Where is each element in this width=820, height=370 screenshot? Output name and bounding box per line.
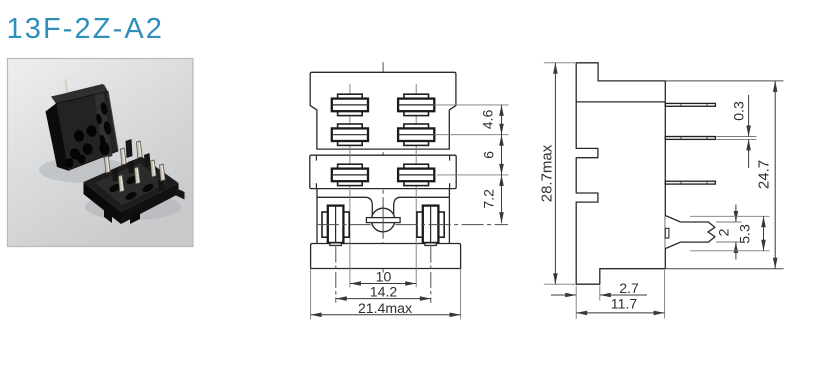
svg-text:6: 6: [481, 151, 497, 159]
svg-text:5.3: 5.3: [737, 224, 753, 244]
svg-text:0.3: 0.3: [731, 101, 747, 121]
svg-text:4.6: 4.6: [480, 110, 496, 130]
svg-text:10: 10: [376, 268, 392, 284]
svg-text:7.2: 7.2: [480, 189, 496, 209]
svg-text:14.2: 14.2: [370, 284, 398, 300]
svg-text:2: 2: [716, 228, 732, 236]
svg-text:21.4max: 21.4max: [358, 300, 412, 316]
svg-text:11.7: 11.7: [611, 296, 638, 312]
svg-text:2.7: 2.7: [619, 280, 639, 296]
svg-text:24.7: 24.7: [756, 160, 773, 189]
svg-text:28.7max: 28.7max: [539, 144, 556, 202]
